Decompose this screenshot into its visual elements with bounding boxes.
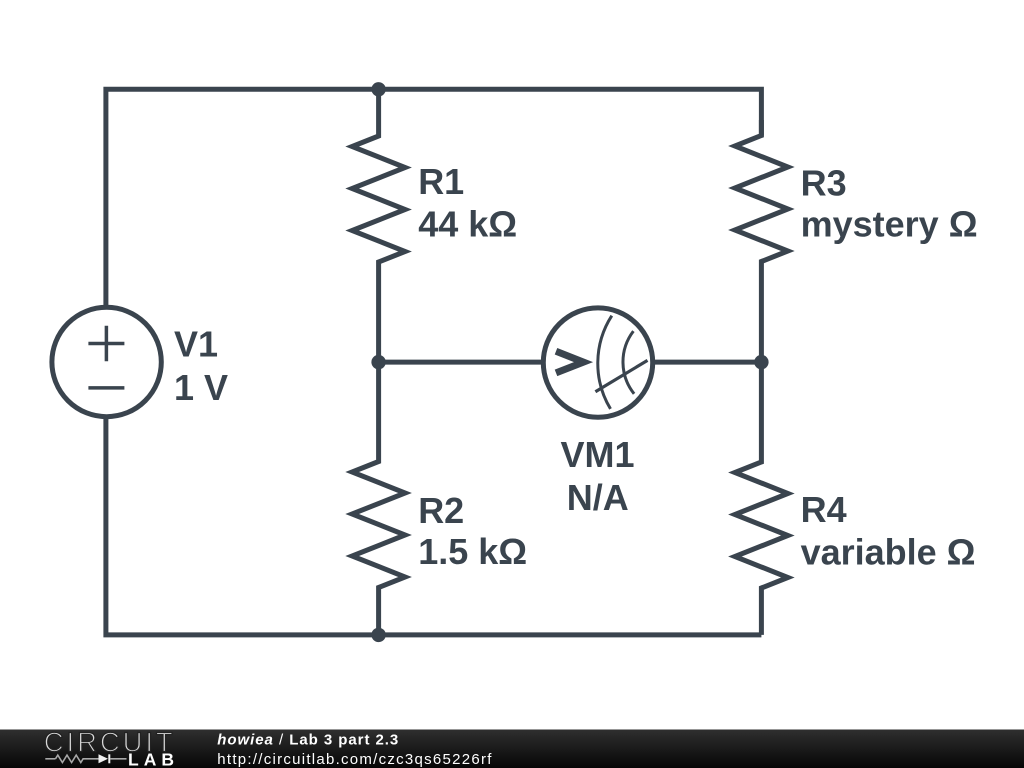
wire: node N1 to top-right corner down to R3 xyxy=(379,89,762,135)
VM1 scale arc inner xyxy=(623,331,634,394)
svg-text:1 V: 1 V xyxy=(174,367,228,408)
svg-text:mystery Ω: mystery Ω xyxy=(801,203,978,244)
node N2 xyxy=(371,355,385,369)
footer logo diode cathode bar xyxy=(108,754,110,763)
wire: bottom rail from R4 to bottom-left corner up to V1 xyxy=(106,419,762,635)
wire: V1 top lead, top-left corner, to node N1 xyxy=(106,89,379,305)
svg-text:R3: R3 xyxy=(801,163,847,204)
footer logo diode triangle xyxy=(99,754,109,763)
resistor R1 xyxy=(352,89,405,362)
svg-text:LAB: LAB xyxy=(128,750,179,768)
wire: middle rail node N2 to node N3 through voltmeter xyxy=(379,360,762,365)
footer logo wire lead-out xyxy=(110,758,127,760)
footer logo resistor zigzag xyxy=(56,755,99,762)
svg-text:howiea / Lab 3 part 2.3: howiea / Lab 3 part 2.3 xyxy=(217,732,399,749)
VM1 needle xyxy=(595,360,647,391)
V1 plus sign xyxy=(88,326,124,362)
voltage source V1 body xyxy=(52,307,161,416)
svg-text:variable Ω: variable Ω xyxy=(801,532,976,573)
V1 minus sign xyxy=(88,386,124,390)
resistor R3 xyxy=(735,120,788,362)
svg-text:R1: R1 xyxy=(418,161,464,202)
svg-text:44 kΩ: 44 kΩ xyxy=(418,204,517,245)
node N1 xyxy=(371,82,385,96)
svg-text:R2: R2 xyxy=(418,490,464,531)
node N3 xyxy=(754,355,768,369)
footer logo wire lead-in xyxy=(45,758,55,760)
svg-text:V1: V1 xyxy=(174,324,218,365)
footer bar xyxy=(0,730,1024,768)
svg-text:R4: R4 xyxy=(801,489,847,530)
resistor R2 xyxy=(352,362,405,635)
svg-text:VM1: VM1 xyxy=(561,434,635,475)
voltmeter VM1 body xyxy=(543,308,652,417)
VM1 scale arc outer xyxy=(598,316,612,409)
node N4 xyxy=(371,628,385,642)
resistor R4 xyxy=(735,362,788,635)
svg-text:1.5 kΩ: 1.5 kΩ xyxy=(418,531,527,572)
svg-text:http://circuitlab.com/czc3qs65: http://circuitlab.com/czc3qs65226rf xyxy=(217,751,492,768)
svg-text:N/A: N/A xyxy=(567,477,629,518)
VM1 chevron xyxy=(556,351,584,373)
